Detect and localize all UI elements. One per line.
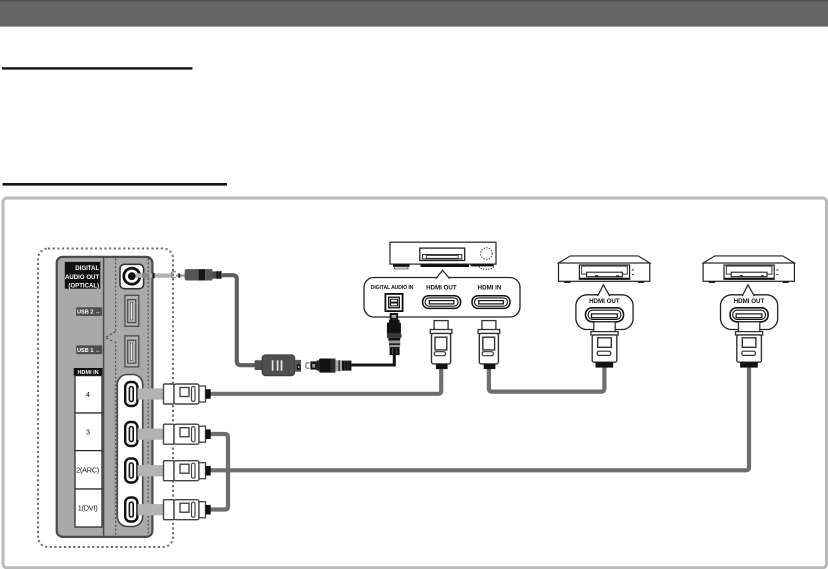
mini plug ring mark: [172, 272, 176, 278]
toslink male spacer: [317, 360, 320, 370]
optical port box: [120, 264, 144, 288]
HDMI port 3: [125, 422, 137, 446]
device2 HDMI socket: [730, 308, 768, 322]
heading underline 2: [3, 183, 228, 186]
heading underline 1: [2, 67, 193, 69]
svg-text:USB 1 ↔: USB 1 ↔: [77, 348, 101, 354]
svg-text:3: 3: [86, 427, 90, 436]
HDMI label box 2(ARC): [75, 451, 102, 489]
device1 callout blob: [576, 295, 633, 330]
outer diagram panel border: [3, 198, 827, 568]
toslink connector at DIGITAL AUDIO IN: [387, 313, 402, 355]
optical port rings: [124, 268, 140, 284]
HDMI connector at receiver HDMI OUT: [430, 321, 452, 370]
svg-text:HDMI OUT: HDMI OUT: [734, 298, 765, 305]
device1 top face: [559, 256, 650, 263]
cables: [211, 368, 750, 510]
device2 feet: [709, 281, 715, 283]
device2 callout blob: [721, 295, 778, 330]
TV-side HDMI cable connectors: [138, 384, 211, 520]
dashed TV outline: [38, 249, 173, 548]
HDMI connector at receiver HDMI IN: [478, 321, 500, 370]
connector at HDMI port 1: [138, 500, 211, 520]
receiver callout notch: [436, 270, 450, 278]
svg-text:DIGITAL: DIGITAL: [75, 265, 99, 272]
dotted fold line right: [147, 259, 149, 536]
mini plug shaft: [176, 275, 185, 277]
HDMI label box 4: [75, 376, 102, 413]
svg-text:USB 2 ↔: USB 2 ↔: [77, 310, 101, 316]
receiver body: [390, 242, 496, 264]
device2 buttons: [777, 269, 779, 270]
wire U-loop HDMI port3 to port1: [211, 434, 229, 510]
receiver foot left: [393, 264, 410, 267]
svg-text:DIGITAL AUDIO IN: DIGITAL AUDIO IN: [371, 285, 414, 291]
HDMI label box 1(DVI): [75, 489, 102, 527]
device1 feet: [564, 281, 570, 283]
ferrite plug black band: [199, 269, 205, 280]
converter inlet plug: [255, 360, 263, 370]
device2 tray: [724, 265, 774, 279]
USB 1 port: [125, 336, 139, 367]
svg-text:2(ARC): 2(ARC): [76, 465, 99, 474]
receiver disc tray: [420, 248, 465, 260]
wire HDMI port2 to device2: [211, 368, 750, 471]
toslink female ring mark: [306, 363, 309, 369]
device 1 (player): [559, 256, 650, 368]
converter box: [262, 355, 295, 376]
device1 HDMI socket: [586, 308, 624, 322]
connector at HDMI port 2: [138, 461, 211, 481]
device 2 (player): [703, 256, 794, 368]
converter stripes: [273, 360, 282, 370]
dotted fold line: [115, 259, 117, 332]
toslink male rings: [335, 360, 338, 371]
inner divider line: [103, 258, 105, 536]
DIGITAL AUDIO OUT (OPTICAL) label box: [65, 262, 101, 289]
converter socket nub: [295, 360, 301, 372]
connector at HDMI port 3: [138, 424, 211, 444]
svg-text:HDMI OUT: HDMI OUT: [589, 298, 620, 305]
HDMI IN socket: [472, 296, 510, 309]
receiver knob: [481, 248, 493, 260]
svg-text:4: 4: [86, 390, 90, 399]
svg-text:(OPTICAL): (OPTICAL): [68, 282, 99, 289]
svg-text:HDMI IN: HDMI IN: [478, 285, 502, 292]
HDMI port 2: [125, 459, 137, 483]
svg-text:1(DVI): 1(DVI): [78, 504, 98, 513]
USB 2 badge: [76, 307, 102, 316]
toslink male body: [319, 359, 335, 373]
svg-text:AUDIO OUT: AUDIO OUT: [65, 274, 99, 281]
optical IN port: [385, 294, 402, 311]
toslink male tip: [310, 361, 316, 369]
top gray header bar: [0, 0, 828, 27]
receiver: [364, 242, 520, 369]
device1 HDMI connector: [591, 322, 618, 368]
ferrite plug rear: [205, 269, 212, 280]
HDMI port 1: [125, 498, 137, 522]
HDMI IN header: [74, 368, 103, 376]
optical chain: [136, 269, 395, 376]
toslink male end cap: [342, 361, 352, 371]
HDMI port strip: [117, 375, 142, 527]
device2 front face: [703, 263, 794, 281]
wire thin optical lead from TV port: [136, 273, 172, 277]
ferrite plug body: [185, 269, 201, 280]
wire HDMI port4 to receiver HDMI OUT: [211, 369, 442, 394]
HDMI label box 3: [75, 413, 102, 451]
device2 callout notch: [742, 285, 754, 296]
wire thick gray optical cable: [221, 275, 255, 365]
fold chevron: [105, 332, 115, 341]
HDMI port 4: [125, 382, 137, 406]
device1 buttons: [632, 269, 634, 270]
TV side panel body: [57, 257, 153, 537]
wire receiver HDMI IN to device1: [489, 368, 605, 392]
HDMI OUT socket: [423, 296, 461, 309]
svg-text:HDMI OUT: HDMI OUT: [426, 285, 457, 292]
ferrite plug ridges: [212, 271, 221, 278]
connector at HDMI port 4: [138, 384, 211, 404]
receiver foot right: [471, 264, 494, 266]
wire black optical cable to receiver: [351, 353, 394, 365]
panel plate: [57, 257, 153, 537]
USB 2 port: [125, 295, 139, 326]
device1 tray: [579, 265, 629, 279]
receiver base bar: [421, 264, 470, 267]
device1 callout notch: [598, 285, 610, 296]
device1 front face: [559, 263, 650, 281]
device2 HDMI connector: [736, 322, 763, 368]
receiver callout panel: [364, 278, 520, 318]
USB 1 badge: [76, 345, 102, 354]
device2 top face: [703, 256, 794, 263]
